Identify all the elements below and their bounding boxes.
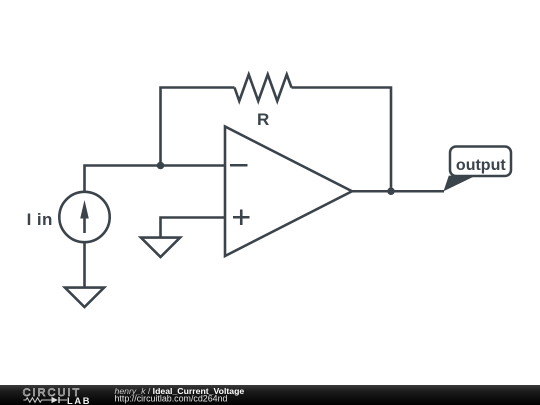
- current source I1 circle: [59, 192, 109, 242]
- op-amp U1 triangle: [225, 127, 352, 257]
- logo resistor squiggle and wire: [23, 398, 51, 403]
- resistor R: [235, 75, 292, 102]
- wire: resistor R right lead down to output node: [292, 88, 392, 192]
- wire: op-amp output: [352, 190, 444, 193]
- svg-text:I in: I in: [27, 210, 53, 229]
- svg-text:output: output: [456, 157, 506, 174]
- svg-text:R: R: [257, 110, 269, 129]
- wire: node A up and right to resistor R left lead: [161, 88, 235, 166]
- footer bar: [0, 385, 540, 405]
- op-amp plus symbol: [233, 210, 250, 226]
- current source arrow head: [80, 200, 89, 219]
- ground (below current source): [65, 288, 104, 307]
- svg-text:http://circuitlab.com/cd264nd: http://circuitlab.com/cd264nd: [115, 394, 228, 404]
- output flag tail: [444, 176, 476, 192]
- wire: current source bottom to ground: [83, 242, 86, 287]
- output node junction dot: [387, 187, 395, 195]
- current source arrow shaft: [83, 217, 86, 233]
- wire: current source top to node A and inverting input: [85, 166, 226, 192]
- logo diode: [52, 397, 58, 403]
- ground (non-inverting input): [141, 238, 180, 257]
- op-amp minus symbol: [230, 164, 248, 167]
- output flag bubble: [450, 147, 511, 177]
- svg-text:LAB: LAB: [67, 396, 91, 405]
- wire: ground to non-inverting input: [161, 218, 226, 238]
- node A junction dot: [157, 162, 165, 170]
